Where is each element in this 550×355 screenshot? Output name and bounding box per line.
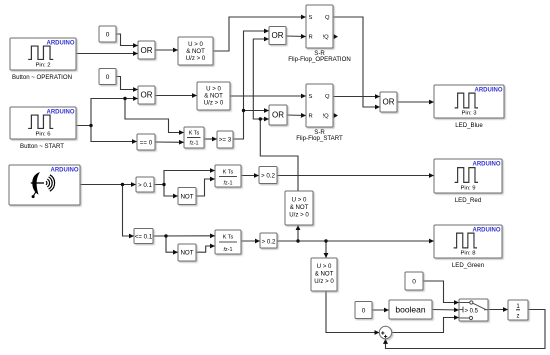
svg-text:Pin: 9: Pin: 9 xyxy=(460,186,475,192)
svg-text:> 0.2: > 0.2 xyxy=(262,238,276,245)
svg-text:U/z > 0: U/z > 0 xyxy=(186,55,206,62)
svg-text:NOT: NOT xyxy=(180,250,193,257)
svg-text:U > 0: U > 0 xyxy=(317,263,332,270)
svg-text:> 0.1: > 0.1 xyxy=(138,182,152,189)
svg-text:R: R xyxy=(309,35,313,41)
svg-text:ARDUINO: ARDUINO xyxy=(51,168,79,174)
svg-text:fz-1: fz-1 xyxy=(224,247,233,253)
svg-text:Pin: 6: Pin: 6 xyxy=(35,132,51,138)
svg-text:== 0: == 0 xyxy=(140,139,153,146)
svg-text:!Q: !Q xyxy=(323,35,330,41)
svg-text:OR: OR xyxy=(383,98,395,107)
svg-text:U > 0: U > 0 xyxy=(188,41,203,48)
svg-text:U > 0: U > 0 xyxy=(292,197,307,204)
svg-text:ARDUINO: ARDUINO xyxy=(473,162,501,168)
svg-text:Button ~ OPERATION: Button ~ OPERATION xyxy=(12,74,72,81)
svg-text:> 0.2: > 0.2 xyxy=(261,172,275,179)
svg-text:OR: OR xyxy=(272,111,284,120)
svg-text:ARDUINO: ARDUINO xyxy=(47,110,75,116)
svg-text:boolean: boolean xyxy=(395,304,426,314)
svg-text:<= 0.1: <= 0.1 xyxy=(135,233,153,240)
svg-text:K Ts: K Ts xyxy=(223,235,234,241)
svg-text:LED_Green: LED_Green xyxy=(452,262,484,269)
svg-text:& NOT: & NOT xyxy=(290,204,309,211)
svg-text:ARDUINO: ARDUINO xyxy=(47,41,75,47)
svg-text:fz-1: fz-1 xyxy=(224,181,233,187)
svg-text:LED_Red: LED_Red xyxy=(455,197,481,204)
svg-text:S: S xyxy=(309,15,313,21)
svg-text:K Ts: K Ts xyxy=(223,170,234,176)
svg-text:0: 0 xyxy=(106,74,110,81)
svg-text:LED_Blue: LED_Blue xyxy=(455,122,483,129)
svg-text:OR: OR xyxy=(141,46,153,55)
svg-text:OR: OR xyxy=(141,91,153,100)
svg-text:U > 0: U > 0 xyxy=(206,86,221,93)
svg-text:0: 0 xyxy=(106,31,110,38)
svg-text:R: R xyxy=(309,114,313,120)
svg-text:U/z > 0: U/z > 0 xyxy=(289,212,309,219)
svg-text:z: z xyxy=(517,314,520,320)
svg-text:>= 3: >= 3 xyxy=(219,137,232,144)
svg-text:Pin: 3: Pin: 3 xyxy=(461,111,477,117)
svg-text:Flip-Flop_START: Flip-Flop_START xyxy=(296,135,343,142)
svg-text:OR: OR xyxy=(272,31,284,40)
svg-text:> 0.5: > 0.5 xyxy=(465,308,479,314)
svg-text:U/z > 0: U/z > 0 xyxy=(314,278,334,285)
svg-text:S: S xyxy=(309,94,313,100)
svg-text:U/z > 0: U/z > 0 xyxy=(204,100,224,107)
svg-text:ARDUINO: ARDUINO xyxy=(473,228,501,234)
svg-text:Q: Q xyxy=(325,15,330,21)
svg-text:NOT: NOT xyxy=(180,193,193,200)
svg-text:fz-1: fz-1 xyxy=(190,141,199,147)
svg-text:0: 0 xyxy=(412,278,416,285)
svg-text:& NOT: & NOT xyxy=(204,93,223,100)
svg-text:0: 0 xyxy=(362,307,366,314)
svg-text:Pin: 2: Pin: 2 xyxy=(35,63,50,69)
svg-text:Pin: 8: Pin: 8 xyxy=(460,251,476,257)
svg-text:Button ~ START: Button ~ START xyxy=(20,143,64,150)
svg-text:Flip-Flop_OPERATION: Flip-Flop_OPERATION xyxy=(288,56,351,63)
svg-text:K Ts: K Ts xyxy=(189,130,200,136)
svg-text:ARDUINO: ARDUINO xyxy=(475,88,503,94)
svg-text:& NOT: & NOT xyxy=(186,48,205,55)
svg-text:!Q: !Q xyxy=(323,114,330,120)
svg-text:& NOT: & NOT xyxy=(315,271,334,278)
svg-text:Q: Q xyxy=(325,94,330,100)
